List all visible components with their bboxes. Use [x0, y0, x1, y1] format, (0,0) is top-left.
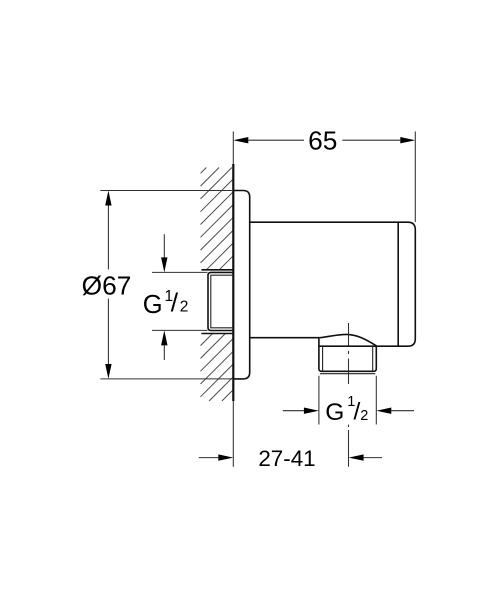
wall surface line	[232, 164, 234, 401]
arrow right of 65	[400, 137, 415, 143]
svg-text:G: G	[143, 291, 163, 319]
arrow left to centerline	[349, 454, 364, 460]
svg-text:27-41: 27-41	[258, 446, 315, 471]
arrow top D67	[105, 191, 111, 206]
extension lines G1/2 inlet	[152, 272, 208, 330]
outlet nipple end chamfer line	[320, 373, 375, 375]
hole top line in wall	[201, 269, 233, 271]
arrow left of 65	[233, 137, 248, 143]
wall extension line top (65 dim)	[232, 132, 234, 165]
extension line bottom D67	[100, 378, 233, 380]
svg-text:2: 2	[360, 408, 368, 424]
svg-text:2: 2	[180, 299, 189, 316]
arrow left to outlet right	[376, 408, 391, 414]
arrow right to outlet left	[304, 408, 319, 414]
arrow bottom D67	[105, 364, 111, 379]
body outline	[250, 222, 416, 346]
outlet nipple thread inner lines	[323, 346, 373, 371]
hole bottom line in wall	[201, 333, 233, 335]
extension line top D67	[100, 190, 233, 192]
svg-text:65: 65	[308, 125, 337, 155]
inlet nipple thread inner lines	[211, 275, 234, 328]
body end cap line	[397, 222, 399, 346]
extension line right for 65	[414, 132, 416, 223]
inlet nipple G1/2 behind wall	[208, 272, 233, 330]
body bottom left edge	[250, 337, 320, 339]
wall hatching	[201, 168, 234, 402]
svg-text:G: G	[325, 399, 344, 426]
flange (escutcheon)	[233, 191, 249, 379]
svg-text:Ø67: Ø67	[82, 271, 132, 301]
svg-text:/: /	[171, 288, 179, 318]
outlet boss hump	[320, 334, 377, 346]
dimension 65 line	[248, 139, 400, 141]
dimension D67 line	[107, 206, 109, 365]
27-41 dimension lines	[199, 457, 382, 459]
G1/2 inlet dimension arrows	[163, 234, 165, 360]
wall extension line bottom (27-41 dim)	[232, 401, 234, 467]
outlet nipple G1/2	[319, 338, 376, 372]
arrow up to inlet bottom	[161, 330, 167, 345]
arrow down to inlet top	[161, 257, 167, 272]
G1/2 outlet dimension lines	[283, 410, 414, 412]
G1/2 outlet extension lines	[319, 376, 376, 425]
outlet centerline (dash-dot)	[348, 323, 350, 467]
outlet nipple top edge	[319, 345, 376, 347]
arrow right to wall	[218, 454, 233, 460]
